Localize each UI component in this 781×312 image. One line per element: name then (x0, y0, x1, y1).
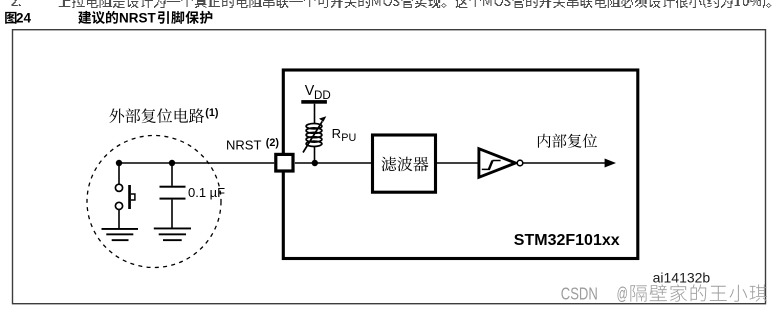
wire: external circuit to NRST pad (119, 162, 274, 164)
label NRST(2) (226, 137, 279, 153)
NRST pad (pin) (276, 154, 293, 171)
svg-text:STM32F101xx: STM32F101xx (514, 232, 620, 249)
svg-text:0.1 µF: 0.1 µF (188, 185, 225, 200)
STM32F101xx boundary box U1 (283, 70, 638, 259)
svg-text:ai14132b: ai14132b (653, 270, 711, 286)
svg-text:24: 24 (16, 10, 32, 25)
wire: internal reset output (523, 159, 616, 168)
junction node (RPU / NRST wire) (312, 160, 318, 166)
caption ai14132b (653, 270, 711, 286)
resistor RPU (variable pull-up) (303, 116, 356, 152)
svg-text:DD: DD (314, 89, 331, 102)
svg-text:@: @ (617, 285, 628, 304)
node: button connection (116, 160, 122, 166)
Schmitt trigger inverter U2 (479, 149, 523, 178)
figure title 图24 建议的NRST引脚保护 (5, 10, 212, 25)
svg-text:R: R (332, 126, 341, 141)
ground (capacitor) (154, 228, 191, 242)
node: capacitor connection (169, 160, 175, 166)
svg-text:CSDN: CSDN (561, 285, 598, 304)
wire filter to Schmitt trigger (437, 162, 478, 164)
wire VDD bar to RPU (314, 104, 316, 124)
svg-text:(2): (2) (266, 137, 280, 149)
footnote text line (cropped at top) (12, 0, 772, 8)
ground (button) (102, 228, 139, 241)
wire RPU to node (314, 146, 316, 163)
capacitor C1 0.1 µF (160, 163, 226, 228)
wire NRST pad to filter (295, 162, 372, 164)
svg-text:NRST: NRST (226, 138, 261, 153)
power rail VDD (301, 83, 330, 104)
svg-text:PU: PU (341, 132, 356, 144)
label 外部复位电路(1) (109, 107, 218, 123)
svg-text:(1): (1) (205, 107, 219, 119)
push button SW (115, 163, 134, 229)
watermark CSDN @隔壁家的王小琪 (561, 284, 767, 304)
filter block 滤波器 (373, 135, 436, 192)
svg-text:NRST: NRST (119, 10, 157, 25)
label 内部复位 (538, 134, 597, 148)
external reset circuit boundary (dashed) (87, 136, 221, 268)
